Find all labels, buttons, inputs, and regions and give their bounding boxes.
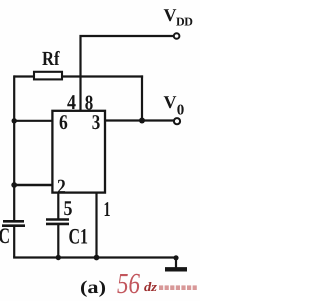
svg-text:dz: dz	[144, 279, 158, 294]
svg-text:1: 1	[104, 197, 111, 221]
svg-text:DD: DD	[176, 15, 193, 29]
svg-text:5: 5	[64, 196, 73, 220]
svg-text:56: 56	[117, 268, 140, 300]
svg-text:3: 3	[92, 110, 101, 134]
svg-text:V: V	[164, 92, 177, 112]
svg-text:6: 6	[59, 110, 68, 134]
svg-text:C1: C1	[69, 224, 89, 249]
svg-text:4: 4	[67, 90, 76, 114]
svg-text:V: V	[164, 5, 177, 25]
svg-text:C: C	[0, 223, 10, 248]
svg-text:0: 0	[177, 103, 185, 119]
svg-text:(a): (a)	[80, 277, 106, 297]
svg-text:Rf: Rf	[42, 48, 60, 70]
